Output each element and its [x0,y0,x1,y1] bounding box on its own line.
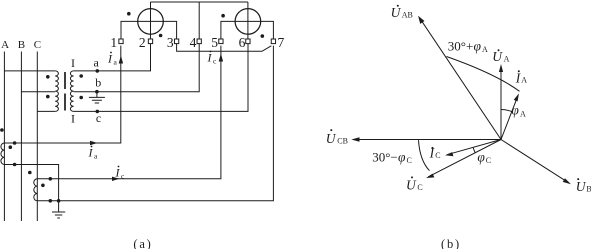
svg-text:φ: φ [477,149,485,164]
TA-A primary polarity dot [0,128,4,132]
arrow Ic on k1 lead [112,177,120,181]
PT primary polarity dot upper [46,75,50,79]
TA-C primary polarity dot [28,171,32,175]
wire TA-A k2 lead down to common [4,165,58,201]
svg-text:U: U [576,179,587,194]
node C bus label [34,39,41,51]
svg-text:5: 5 [211,35,218,50]
svg-text:C: C [407,156,412,165]
label terminal 3 [167,35,174,50]
svg-text:C: C [435,151,440,160]
svg-text:U: U [406,177,417,192]
svg-text:7: 7 [278,35,285,50]
wire common return to terminal 7 [37,46,273,201]
wire phase B bus [20,52,22,222]
phasor UAB [420,18,502,140]
arrow Ia into terminal 1 [119,56,123,64]
current transformer TA-A secondary coil [1,143,5,165]
wire TA-C k1 lead to terminal 5 [37,46,221,179]
transformer PT secondary winding [70,71,73,111]
svg-text:a: a [94,56,100,70]
label UB [576,178,591,194]
node a terminal dot [96,69,100,73]
svg-text:I: I [107,52,113,66]
wattmeter W2 [235,9,261,35]
phasor UC [428,140,501,177]
phasor UCB [354,139,502,141]
terminal 3 square [174,39,178,44]
svg-text:4: 4 [190,35,197,50]
TA-C k1 terminal dot [49,177,53,181]
label Ic at terminal 5 [207,51,218,66]
label UA [492,49,509,64]
wire link terminal 3 to terminal 7 [177,44,272,52]
label terminal 7 [278,35,285,50]
svg-text:I: I [71,56,75,70]
wire phase C bus [36,52,38,222]
wire top bus branch to terminal 4 [198,2,200,39]
W2 polarity dot voltage [261,34,265,38]
label phiA [511,103,526,119]
label Ia at terminal 1 [107,52,118,67]
arc phiC [473,148,475,153]
wire terminal 5 up to W2 current coil [221,21,274,39]
node A bus label [1,39,9,51]
terminal 6 square [246,39,250,44]
wire TA-A k1 lead to terminal 1 [4,46,120,143]
svg-text:C: C [417,183,422,192]
W2 polarity dot current [221,14,225,18]
svg-text:30°+: 30°+ [448,38,474,53]
label terminal 4 [190,35,197,50]
label phiC [477,149,491,165]
wire terminal 1 up to W1 current coil [121,21,177,39]
ground at CT common return [52,201,65,218]
svg-text:(a): (a) [133,237,152,249]
svg-text:a: a [94,151,98,160]
label terminal 1 [110,35,117,50]
arc phiA [501,110,512,112]
label winding I top [71,56,75,70]
terminal 7 square [271,39,275,44]
wire secondary c to terminal 6 [74,44,248,112]
svg-text:φ: φ [511,103,519,118]
node a label [94,56,100,70]
svg-text:3: 3 [167,35,174,50]
svg-text:U: U [391,5,402,20]
svg-text:I: I [207,51,213,65]
label (a) [133,237,152,249]
arrow Ia on k1 lead [90,141,98,145]
wire secondary b to terminal 4 [74,44,200,92]
W1 polarity dot current [127,12,131,16]
arc 30deg minus phiC [419,140,430,171]
svg-text:(b): (b) [441,237,461,249]
terminal 4 square [197,39,201,44]
svg-text:A: A [520,109,526,118]
node b terminal dot [95,90,99,94]
svg-text:A: A [482,45,488,54]
svg-text:a: a [114,57,118,66]
wire PT primary lead A [4,70,55,72]
svg-text:C: C [34,39,41,51]
svg-text:U: U [326,131,337,146]
current transformer TA-C secondary coil [34,179,38,201]
svg-text:6: 6 [239,35,246,50]
wire W2 voltage coil vertical [247,2,249,39]
wire phase A bus [3,52,5,222]
svg-text:B: B [18,39,25,51]
wire W1 voltage coil vertical [150,2,152,39]
TA-A k2 terminal dot [13,163,17,167]
label Ia near CT [88,146,99,161]
node b label [95,76,101,90]
PT primary polarity dot lower [46,95,50,99]
label winding I bottom [71,111,75,125]
svg-text:I: I [88,146,94,160]
svg-text:AB: AB [402,10,413,19]
junction dot common return [57,199,61,203]
svg-text:C: C [486,156,491,165]
svg-text:B: B [586,185,591,194]
svg-text:φ: φ [474,38,482,53]
phasor IA [501,96,518,140]
node B bus label [18,39,25,51]
label 30-phiC [372,149,412,165]
label (b) [441,237,461,249]
phasor UA [500,67,502,140]
TA-C secondary polarity dot [41,184,45,188]
svg-text:A: A [521,76,527,85]
wattmeter W1 [138,9,164,35]
label IC [429,146,441,161]
ground at PT terminal b [89,92,105,103]
svg-text:U: U [492,49,503,64]
phasor UB [501,140,569,183]
label IA [515,70,528,85]
svg-text:A: A [1,39,9,51]
svg-text:1: 1 [110,35,117,50]
arrow Ic into terminal 5 [219,54,223,62]
terminal 2 square [148,39,152,44]
TA-A secondary polarity dot [9,145,13,149]
wire voltage top bus [151,1,248,3]
svg-text:b: b [95,76,101,90]
arc 30deg plus phiA [447,57,520,92]
wire PT primary lead C [37,110,55,112]
TA-C k2 terminal dot [49,199,53,203]
svg-text:φ: φ [398,149,406,164]
PT secondary polarity dot lower [79,96,83,100]
terminal 1 square [119,39,123,44]
svg-text:I: I [115,166,121,180]
label terminal 5 [211,35,218,50]
PT core bar upper [64,72,66,89]
label terminal 2 [139,35,146,50]
label terminal 6 [239,35,246,50]
label UAB [391,5,413,20]
PT secondary polarity dot upper [79,74,83,78]
svg-text:c: c [96,111,101,125]
PT core bar lower [64,94,66,111]
svg-text:A: A [504,54,510,63]
svg-text:I: I [71,111,75,125]
svg-text:c: c [213,56,217,65]
W1 polarity dot voltage [159,34,163,38]
terminal 5 square [219,39,223,44]
phasor IC [447,140,501,155]
transformer PT primary winding [55,71,58,111]
wire secondary a to terminal 2 [74,44,151,71]
svg-text:CB: CB [337,136,348,145]
label Ic near CT [115,166,126,181]
svg-text:2: 2 [139,35,146,50]
node c label [96,111,101,125]
label UC [406,176,423,192]
label 30+phiA [448,38,488,54]
label UCB [326,129,348,146]
svg-text:30°−: 30°− [372,149,398,164]
node c terminal dot [96,110,100,114]
wire PT primary lead B [21,91,55,93]
TA-A k1 terminal dot [13,141,17,145]
